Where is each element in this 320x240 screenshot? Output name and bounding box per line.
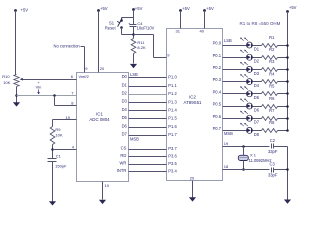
svg-text:+5V: +5V xyxy=(182,6,190,11)
svg-text:P0.1: P0.1 xyxy=(213,53,222,58)
svg-text:LSB: LSB xyxy=(130,72,138,77)
wire D4 to P1.4 xyxy=(122,107,178,113)
LED D7 xyxy=(240,111,260,125)
wire junction to IC1 pin 8 xyxy=(55,96,77,106)
wire WR to P3.5 xyxy=(119,160,177,166)
wire S1 bottom to node xyxy=(122,28,134,35)
label LSB (P0) xyxy=(224,38,232,43)
svg-text:MSB: MSB xyxy=(130,136,139,141)
svg-text:40: 40 xyxy=(200,29,205,34)
ground (IC1 pin10) xyxy=(99,200,106,204)
svg-text:+5V: +5V xyxy=(135,6,143,11)
power +5V node (IC2 pin31) xyxy=(179,6,190,12)
IC1 ADC0804 box xyxy=(77,73,129,182)
wire +5V rail xyxy=(287,12,289,131)
svg-text:P1.3: P1.3 xyxy=(168,99,177,104)
wire P0.4 to LED D5 xyxy=(213,89,247,94)
svg-text:No connection: No connection xyxy=(54,44,81,49)
svg-text:18: 18 xyxy=(224,164,229,169)
LED D2 xyxy=(240,50,260,64)
wire LED to R7 xyxy=(253,118,262,120)
svg-text:R2: R2 xyxy=(269,47,275,52)
svg-text:RD: RD xyxy=(120,153,126,158)
svg-text:33pF: 33pF xyxy=(268,173,278,178)
capacitor C1 150pF xyxy=(48,154,68,169)
node rail row 3 xyxy=(286,68,289,71)
wire P0.6 to LED D7 xyxy=(213,114,247,119)
wire C2 to rail corner xyxy=(274,147,288,200)
svg-text:MSB: MSB xyxy=(224,131,233,136)
svg-text:R10: R10 xyxy=(2,74,10,79)
svg-text:P1.1: P1.1 xyxy=(168,83,177,88)
wire P0.0 to LED D1 xyxy=(213,41,247,46)
wire +5V to IC1 pin 20 xyxy=(99,11,106,73)
wire reset node to IC2 pin 9 RST xyxy=(134,35,171,58)
wire INTR to P3.4 xyxy=(117,168,178,174)
wire P0.2 to LED D3 xyxy=(213,65,247,70)
wire +5V to IC2 pin 40 xyxy=(200,11,205,34)
svg-text:D7: D7 xyxy=(254,120,260,125)
svg-text:P0.7: P0.7 xyxy=(213,126,222,131)
svg-text:P1.6: P1.6 xyxy=(168,124,177,129)
node reset junction xyxy=(132,33,135,36)
svg-text:+5V: +5V xyxy=(21,8,29,13)
svg-text:C3: C3 xyxy=(270,161,276,166)
svg-text:AT89S51: AT89S51 xyxy=(184,100,203,105)
svg-text:R3: R3 xyxy=(269,59,275,64)
wire no-connection to IC1 pin 9 xyxy=(81,47,89,73)
svg-text:P1.5: P1.5 xyxy=(168,116,177,121)
svg-text:11.0592MHz: 11.0592MHz xyxy=(249,158,272,163)
svg-text:IC1: IC1 xyxy=(96,112,103,117)
ground (pot) xyxy=(13,102,20,106)
wire R4 to rail xyxy=(278,81,288,83)
svg-text:D3: D3 xyxy=(254,71,260,76)
svg-text:19: 19 xyxy=(224,141,229,146)
node crystal top xyxy=(242,145,245,148)
crystal X1 11.0592MHz xyxy=(238,147,271,170)
wire LED to R8 xyxy=(253,130,262,132)
wire R1 to rail xyxy=(278,45,288,47)
power +5V node (IC1 Vcc) xyxy=(97,6,108,12)
svg-text:ADC 0804: ADC 0804 xyxy=(89,117,110,122)
no connection note xyxy=(54,44,81,49)
wire +5V to R10 xyxy=(15,11,17,75)
svg-text:10K: 10K xyxy=(3,80,10,85)
wire P0.7 to LED D8 xyxy=(213,126,247,131)
wire LED to R1 xyxy=(253,45,262,47)
node rail row 2 xyxy=(286,56,289,59)
wire LED to R6 xyxy=(253,106,262,108)
power +5V node (reset) xyxy=(132,6,142,11)
svg-text:Reset: Reset xyxy=(105,25,117,30)
wire Vin- to IC1 pin 7 xyxy=(17,91,77,96)
wire R8 to rail xyxy=(278,130,288,132)
svg-text:R8: R8 xyxy=(269,120,275,125)
node rail row 6 xyxy=(286,105,289,108)
svg-text:INTR: INTR xyxy=(117,168,127,173)
svg-text:R7: R7 xyxy=(269,108,275,113)
resistor R7 xyxy=(262,108,278,121)
resistor R5 xyxy=(262,84,278,96)
wire D2 to P1.2 xyxy=(122,91,178,97)
wire R10 wiper to IC1 pin 6 xyxy=(23,74,77,79)
wire D5 to P1.5 xyxy=(122,115,178,121)
wire R3 to rail xyxy=(278,69,288,71)
wire R7 to rail xyxy=(278,118,288,120)
wire P0.1 to LED D2 xyxy=(213,53,247,58)
label LSB (bus) xyxy=(130,72,138,77)
Vin labels xyxy=(36,80,42,94)
svg-text:+5V: +5V xyxy=(100,6,108,11)
IC2 AT89S51 box xyxy=(167,29,223,181)
svg-text:D6: D6 xyxy=(122,123,128,128)
svg-text:R5: R5 xyxy=(269,84,275,89)
wire P0.5 to LED D6 xyxy=(213,102,247,107)
power +5V node (pot) xyxy=(14,8,28,13)
potentiometer R10 10K xyxy=(2,74,23,87)
node rail row 1 xyxy=(286,44,289,47)
svg-text:D7: D7 xyxy=(122,132,128,137)
wire IC2 pin 20 to ground xyxy=(190,176,195,198)
svg-text:C2: C2 xyxy=(270,138,276,143)
resistor R2 xyxy=(262,47,278,60)
svg-text:C1: C1 xyxy=(56,154,62,159)
node crystal bottom xyxy=(242,168,245,171)
svg-text:D6: D6 xyxy=(254,107,260,112)
node rail row 5 xyxy=(286,92,289,95)
wire IC2 pin 19 XTAL1 xyxy=(223,141,270,146)
svg-text:D3: D3 xyxy=(122,99,128,104)
label Vref/2 xyxy=(79,74,89,79)
svg-text:WR: WR xyxy=(119,160,126,165)
svg-text:P0.3: P0.3 xyxy=(213,77,222,82)
svg-text:D2: D2 xyxy=(122,91,128,96)
wire R2 to rail xyxy=(278,57,288,59)
wire R10 bottom to ground xyxy=(16,87,18,103)
svg-text:P1.7: P1.7 xyxy=(168,132,177,137)
wire LED to R2 xyxy=(253,57,262,59)
node pin4 junction xyxy=(51,148,54,151)
wire branch to S1 xyxy=(122,18,134,21)
LED D6 xyxy=(240,99,260,113)
svg-text:D1: D1 xyxy=(122,82,128,87)
svg-text:LSB: LSB xyxy=(224,38,232,43)
wire D0 to P1.0 xyxy=(122,74,178,80)
capacitor C3 33pF xyxy=(268,161,278,177)
resistor R8 xyxy=(262,120,278,132)
wire CS to P3.7 xyxy=(121,145,178,151)
svg-text:20: 20 xyxy=(190,176,195,181)
svg-text:Vref/2: Vref/2 xyxy=(79,74,89,79)
capacitor C4 10uF/10V xyxy=(128,21,155,31)
resistor R3 xyxy=(262,59,278,71)
wire D7 to P1.7 xyxy=(122,132,178,138)
svg-text:R1 to R8 =550 OHM: R1 to R8 =550 OHM xyxy=(240,21,281,26)
resistor R11 8.2K xyxy=(131,39,146,54)
svg-text:P3.6: P3.6 xyxy=(168,154,177,159)
node rail row 7 xyxy=(286,117,289,120)
wire LED to R5 xyxy=(253,93,262,95)
wire D6 to P1.6 xyxy=(122,123,178,129)
svg-text:D1: D1 xyxy=(254,46,260,51)
svg-text:P1.4: P1.4 xyxy=(168,108,177,113)
wire C4 to node xyxy=(133,27,135,39)
svg-text:IC2: IC2 xyxy=(189,95,196,100)
note R1 to R8 =550 OHM xyxy=(240,21,281,26)
node pot-bottom / Vin- junction xyxy=(15,94,18,97)
svg-text:10: 10 xyxy=(105,183,110,188)
LED D8 xyxy=(240,123,260,137)
wire IC2 pin 18 XTAL2 xyxy=(223,164,270,170)
svg-text:31: 31 xyxy=(176,29,181,34)
LED D1 xyxy=(240,38,260,52)
node rail row 4 xyxy=(286,80,289,83)
svg-text:P0.6: P0.6 xyxy=(213,114,222,119)
svg-text:D4: D4 xyxy=(254,83,260,88)
svg-text:P0.5: P0.5 xyxy=(213,102,222,107)
power +5V node (LED rail) xyxy=(286,5,297,13)
wire D3 to P1.3 xyxy=(122,99,178,105)
wire RD to P3.6 xyxy=(120,153,177,159)
svg-text:X 1: X 1 xyxy=(250,153,257,158)
LED D3 xyxy=(240,62,260,76)
svg-text:D5: D5 xyxy=(254,95,260,100)
svg-text:P3.5: P3.5 xyxy=(168,161,177,166)
svg-text:10uF/10V: 10uF/10V xyxy=(137,26,155,31)
svg-text:D5: D5 xyxy=(122,115,128,120)
capacitor C2 33pF xyxy=(268,138,278,154)
svg-text:R1: R1 xyxy=(269,35,275,40)
wire R11 to ground xyxy=(133,54,135,64)
svg-text:D0: D0 xyxy=(122,74,128,79)
resistor R4 xyxy=(262,71,278,83)
wire P0.3 to LED D4 xyxy=(213,77,247,82)
svg-text:P3.4: P3.4 xyxy=(168,169,177,174)
wire IC1 pin 19 to R9 xyxy=(53,115,77,127)
wire C1 to ground xyxy=(52,162,54,202)
svg-text:Vin: Vin xyxy=(36,85,42,90)
ground (R11) xyxy=(130,64,137,68)
svg-text:19: 19 xyxy=(66,115,71,120)
svg-text:P3.7: P3.7 xyxy=(168,146,177,151)
node rail/C3 junction xyxy=(286,168,289,171)
switch S1 Reset xyxy=(105,18,123,30)
svg-text:P0.2: P0.2 xyxy=(213,65,222,70)
svg-text:CS: CS xyxy=(121,145,127,150)
svg-text:+5V: +5V xyxy=(206,6,214,11)
svg-text:R6: R6 xyxy=(269,96,275,101)
svg-text:D8: D8 xyxy=(254,132,260,137)
ground (IC2 pin20) xyxy=(189,197,196,201)
LED D5 xyxy=(240,86,260,100)
resistor R6 xyxy=(262,96,278,109)
svg-text:10K: 10K xyxy=(55,132,62,137)
wire +5V down to C4 xyxy=(133,10,135,25)
ground (crystal rail) xyxy=(284,200,291,204)
svg-text:150pF: 150pF xyxy=(55,164,67,169)
svg-text:P0.0: P0.0 xyxy=(213,41,222,46)
wire IC1 pin 10 to ground xyxy=(103,182,110,200)
label MSB (bus) xyxy=(130,136,139,141)
svg-text:R4: R4 xyxy=(269,71,275,76)
svg-text:20: 20 xyxy=(100,66,105,71)
label MSB (P0) xyxy=(224,131,233,136)
node rail row 8 xyxy=(286,129,289,132)
resistor R1 xyxy=(262,35,278,48)
wire LED to R3 xyxy=(253,69,262,71)
svg-text:+5V: +5V xyxy=(289,5,297,10)
svg-text:D4: D4 xyxy=(122,107,128,112)
wire R9 to pin4 node xyxy=(52,145,54,159)
wire R5 to rail xyxy=(278,93,288,95)
wire LED to R4 xyxy=(253,81,262,83)
svg-text:8.2K: 8.2K xyxy=(137,45,146,50)
wire D1 to P1.1 xyxy=(122,82,178,88)
power +5V node (IC2 pin40) xyxy=(203,6,214,12)
svg-text:P0.4: P0.4 xyxy=(213,89,222,94)
svg-text:33pF: 33pF xyxy=(268,149,278,154)
svg-text:D2: D2 xyxy=(254,59,260,64)
svg-text:P1.0: P1.0 xyxy=(168,75,177,80)
resistor R9 10K xyxy=(50,127,63,145)
svg-text:P1.2: P1.2 xyxy=(168,91,177,96)
wire C3 to rail xyxy=(274,169,288,171)
wire +5V to IC2 pin 31 xyxy=(176,11,181,34)
LED D4 xyxy=(240,74,260,88)
ground (C1) xyxy=(49,201,56,205)
node pin7/pin8 junction xyxy=(53,94,56,97)
wire node to IC1 pin 4 xyxy=(53,144,77,149)
wire R6 to rail xyxy=(278,106,288,108)
